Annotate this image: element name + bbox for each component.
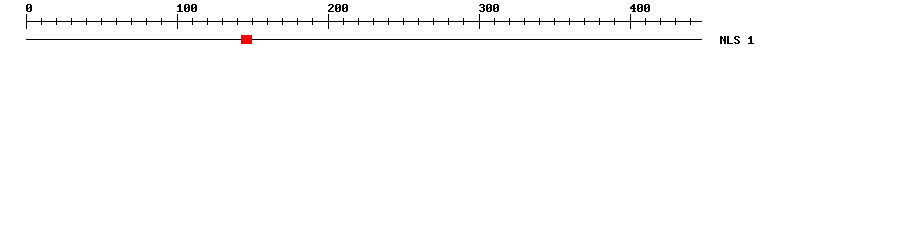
minor tick 440 — [690, 18, 691, 25]
minor tick 110 — [192, 18, 193, 25]
ruler label 400 — [630, 4, 650, 12]
minor tick 240 — [388, 18, 389, 25]
minor tick 130 — [222, 18, 223, 25]
ruler label 200 — [328, 4, 348, 12]
NLS 1 marker box (red) — [241, 35, 252, 44]
minor tick 370 — [584, 18, 585, 25]
minor tick 80 — [146, 18, 147, 25]
minor tick 90 — [161, 18, 162, 25]
major tick 300 — [479, 14, 480, 29]
major tick 400 — [630, 14, 631, 29]
minor tick 230 — [373, 18, 374, 25]
minor tick 430 — [675, 18, 676, 25]
minor tick 350 — [554, 18, 555, 25]
minor tick 340 — [539, 18, 540, 25]
minor tick 220 — [358, 18, 359, 25]
ruler label 100 — [177, 4, 197, 12]
minor tick 380 — [599, 18, 600, 25]
ruler label 0 — [26, 4, 32, 12]
major tick 0 — [26, 14, 27, 29]
minor tick 250 — [403, 18, 404, 25]
minor tick 40 — [86, 18, 87, 25]
minor tick 190 — [312, 18, 313, 25]
minor tick 320 — [509, 18, 510, 25]
minor tick 280 — [448, 18, 449, 25]
minor tick 120 — [207, 18, 208, 25]
minor tick 390 — [614, 18, 615, 25]
background — [0, 0, 900, 58]
ruler label 300 — [479, 4, 499, 12]
minor tick 160 — [267, 18, 268, 25]
major tick 100 — [177, 14, 178, 29]
NLS 1 label — [720, 36, 754, 44]
minor tick 420 — [660, 18, 661, 25]
minor tick 150 — [252, 18, 253, 25]
minor tick 360 — [569, 18, 570, 25]
minor tick 260 — [418, 18, 419, 25]
minor tick 330 — [524, 18, 525, 25]
minor tick 410 — [645, 18, 646, 25]
minor tick 30 — [71, 18, 72, 25]
minor tick 270 — [433, 18, 434, 25]
major tick 200 — [328, 14, 329, 29]
minor tick 20 — [56, 18, 57, 25]
sequence line — [26, 39, 702, 40]
minor tick 310 — [494, 18, 495, 25]
minor tick 140 — [237, 18, 238, 25]
minor tick 180 — [297, 18, 298, 25]
ruler axis line — [26, 21, 702, 22]
minor tick 290 — [463, 18, 464, 25]
minor tick 210 — [343, 18, 344, 25]
minor tick 50 — [101, 18, 102, 25]
minor tick 60 — [116, 18, 117, 25]
minor tick 10 — [41, 18, 42, 25]
minor tick 170 — [282, 18, 283, 25]
minor tick 70 — [131, 18, 132, 25]
